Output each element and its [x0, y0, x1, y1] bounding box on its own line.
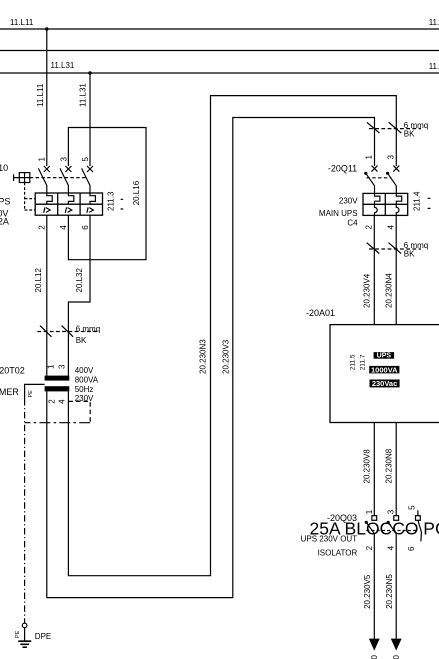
svg-text:11.L31: 11.L31 — [78, 83, 87, 107]
svg-text:3: 3 — [59, 157, 68, 162]
Q11 pivot dot pole 1 — [364, 172, 367, 175]
svg-text:211.3: 211.3 — [107, 191, 116, 211]
svg-text:230Vac: 230Vac — [372, 379, 397, 388]
svg-text:20.L32: 20.L32 — [75, 267, 84, 292]
wire 20.230N3 routing (secondary pin4 to Q11 pin3) — [68, 96, 396, 576]
svg-text:400V: 400V — [75, 366, 94, 375]
svg-text:6: 6 — [81, 225, 90, 230]
cable marker B slash pole 2 — [389, 243, 402, 254]
earth electrode circle — [22, 623, 27, 628]
svg-text:50Hz: 50Hz — [75, 385, 94, 394]
svg-text:800VA: 800VA — [75, 376, 99, 385]
Q03 blade pole 2 — [388, 522, 396, 533]
Q10 blade pole 1 — [38, 168, 46, 193]
svg-text:MAIN UPS: MAIN UPS — [319, 209, 358, 218]
cable marker A slash pole 2 — [389, 122, 402, 133]
Q11 pivot dot pole 2 — [386, 172, 389, 175]
svg-text:211.7: 211.7 — [359, 354, 366, 370]
wire drop 11.L11 — [46, 29, 48, 166]
svg-text:-20Q10: -20Q10 — [0, 163, 8, 173]
Q11 blade pole 2 — [388, 173, 397, 193]
Q03 terminal square pole 2 — [394, 516, 399, 521]
neutral earthing dashed link — [68, 401, 90, 422]
svg-text:2: 2 — [38, 225, 47, 230]
cable marker A dashed line — [369, 128, 421, 130]
Q10 handle dashed drop and stubs — [25, 183, 36, 211]
svg-text:3: 3 — [387, 155, 396, 160]
svg-text:4: 4 — [386, 225, 395, 230]
svg-text:20.L16: 20.L16 — [132, 180, 141, 205]
PE screen connection wire — [25, 384, 45, 399]
Q10 magnetic I> pole 1 — [44, 207, 51, 212]
svg-text:1: 1 — [365, 155, 374, 160]
svg-text:1: 1 — [47, 364, 56, 369]
svg-text:11.L11: 11.L11 — [429, 18, 439, 27]
svg-text:1000VA: 1000VA — [371, 365, 398, 374]
svg-text:5: 5 — [408, 505, 417, 510]
Q10 magnetic I> pole 2 — [65, 207, 72, 212]
Q10 thermal element pole 1 — [47, 193, 52, 204]
svg-text:1: 1 — [365, 509, 374, 514]
svg-text:ISOLATOR: ISOLATOR — [318, 549, 358, 558]
Q11 magnetic element pole 2 — [396, 204, 399, 215]
Q10 body box — [35, 193, 102, 215]
Q03 pivot dot pole 2 — [387, 521, 390, 524]
junction dot on bus L1 — [45, 27, 48, 30]
wire 20.230V5 — [373, 534, 375, 640]
Q10 magnetic I> pole 3 — [87, 207, 94, 212]
Q10 terminal X pole 2 — [65, 166, 71, 172]
Q11 terminal X pole 2 — [393, 166, 399, 172]
svg-text:211.4: 211.4 — [412, 191, 421, 211]
Q03 blade pole 3 — [418, 520, 422, 541]
svg-text:BK: BK — [404, 250, 415, 259]
svg-text:25A BLOCCO PC: 25A BLOCCO PC — [310, 518, 439, 538]
bus L1 (11.L11) — [0, 28, 439, 30]
PE dash-dot earth conductor — [24, 399, 26, 623]
earth stem — [24, 628, 26, 642]
Q03 pivot dot pole 1 — [365, 521, 368, 524]
transformer secondary winding bar — [45, 386, 70, 391]
cable marker A slash pole 1 — [367, 122, 380, 133]
svg-text:6: 6 — [407, 546, 416, 551]
svg-text:20.230N4: 20.230N4 — [384, 273, 393, 308]
Q10 blade pole 2 — [60, 168, 68, 193]
svg-text:0: 0 — [370, 655, 379, 659]
Q03 terminal square pole 3 — [416, 516, 421, 521]
svg-text:20.230N3: 20.230N3 — [198, 339, 207, 374]
cable marker left dashed line — [37, 331, 97, 333]
svg-text:11.L11: 11.L11 — [36, 83, 45, 107]
svg-text:5: 5 — [81, 157, 90, 162]
svg-text:2: 2 — [365, 225, 374, 230]
cable marker left slash pole 1 — [40, 326, 52, 337]
svg-text:-20T02: -20T02 — [0, 366, 25, 376]
svg-text:20.230V5: 20.230V5 — [363, 574, 372, 609]
neutral earthing dashed link bottom run — [25, 422, 91, 424]
Q03 blade pole 1 — [366, 522, 374, 533]
Q10 terminal X pole 1 — [44, 166, 50, 172]
cable marker left slash pole 2 — [62, 326, 74, 337]
Q11 thermal element pole 1 — [375, 193, 380, 204]
svg-text:211.5: 211.5 — [350, 354, 357, 370]
svg-text:4: 4 — [59, 225, 68, 230]
svg-text:2: 2 — [47, 399, 56, 404]
Q10 handle linkage dashed — [30, 177, 86, 179]
svg-text:6.2A: 6.2A — [0, 217, 9, 227]
svg-text:1: 1 — [38, 157, 47, 162]
svg-text:PE: PE — [28, 390, 34, 398]
Q10 thermal element pole 2 — [68, 193, 73, 204]
svg-text:-20Q11: -20Q11 — [328, 164, 357, 174]
Q03 linkage dashed — [366, 530, 418, 532]
svg-text:BK: BK — [76, 336, 87, 345]
transformer primary winding bar — [45, 376, 70, 381]
svg-text:3: 3 — [387, 509, 396, 514]
svg-text:20.230N8: 20.230N8 — [384, 448, 393, 483]
Q11 thermal element pole 2 — [396, 193, 401, 204]
Q10 terminal X pole 3 — [87, 166, 93, 172]
Q11 terminal X pole 1 — [372, 166, 378, 172]
svg-text:0: 0 — [392, 655, 401, 659]
arrow V5 — [369, 639, 380, 651]
svg-text:DPE: DPE — [35, 632, 51, 641]
Q03 pole 3 top stub — [417, 510, 419, 515]
bus L2 — [0, 50, 439, 52]
wire 20.230N8 — [395, 423, 397, 516]
ground symbol bars — [18, 641, 31, 647]
svg-text:-20A01: -20A01 — [306, 308, 335, 318]
Q11 magnetic element pole 1 — [375, 204, 378, 215]
wire 20.L32 with jog — [68, 215, 90, 375]
svg-text:20.230N5: 20.230N5 — [385, 574, 394, 609]
Q11 linkage dashed — [367, 177, 392, 179]
Q03 terminal square pole 1 — [372, 516, 377, 521]
breaker Q10 parallel loop wire 20.L16 — [68, 128, 146, 260]
svg-text:3: 3 — [57, 364, 66, 369]
Q11 body box — [363, 193, 408, 215]
svg-text:230V: 230V — [339, 196, 358, 205]
svg-text:2: 2 — [365, 545, 374, 550]
svg-text:UPS: UPS — [377, 353, 392, 360]
UPS chip label 230Vac — [370, 380, 400, 388]
svg-text:C4: C4 — [347, 218, 358, 227]
Q11 cross-reference dashes — [428, 198, 431, 208]
wire 20.230V8 — [373, 423, 375, 516]
wire 20.230N4 — [395, 215, 397, 324]
UPS chip label 1000VA — [369, 366, 399, 374]
svg-text:TRANSFORMER: TRANSFORMER — [0, 387, 19, 397]
UPS chip label UPS — [374, 352, 395, 359]
svg-text:4: 4 — [387, 545, 396, 550]
Q10 handle symbol — [14, 173, 30, 183]
svg-text:11.L31: 11.L31 — [51, 61, 75, 70]
svg-text:PE: PE — [15, 630, 21, 638]
bus L3 (11.L31) — [0, 72, 439, 74]
wire drop 11.L31 — [89, 73, 91, 166]
svg-text:20.230V3: 20.230V3 — [221, 339, 230, 374]
UPS unit box — [330, 325, 439, 423]
svg-text:20.L12: 20.L12 — [34, 267, 43, 292]
wire 20.L12 — [46, 215, 48, 375]
Q10 thermal element pole 3 — [90, 193, 95, 204]
wire 20.230V4 — [373, 215, 375, 324]
svg-text:11.L31: 11.L31 — [429, 62, 439, 71]
svg-text:UPS: UPS — [0, 196, 10, 206]
Q10 cross-reference dashes — [121, 199, 124, 209]
Q10 blade pole 3 — [82, 168, 90, 193]
svg-text:6 mmq: 6 mmq — [76, 325, 100, 334]
cable marker B dashed line — [369, 248, 421, 250]
Q11 blade pole 1 — [366, 173, 375, 193]
cable marker B slash pole 1 — [367, 243, 380, 254]
svg-text:20.230V4: 20.230V4 — [362, 273, 371, 308]
junction dot on bus L3 — [88, 71, 91, 74]
wire 20.230N5 — [395, 534, 397, 640]
svg-text:20.230V8: 20.230V8 — [363, 449, 372, 484]
wire 20.230V3 routing (secondary pin2 to Q11 pin1) — [47, 118, 375, 598]
svg-text:BK: BK — [404, 130, 415, 139]
arrow N5 — [391, 639, 402, 651]
svg-text:11.L11: 11.L11 — [10, 18, 34, 27]
svg-text:4: 4 — [58, 399, 67, 404]
